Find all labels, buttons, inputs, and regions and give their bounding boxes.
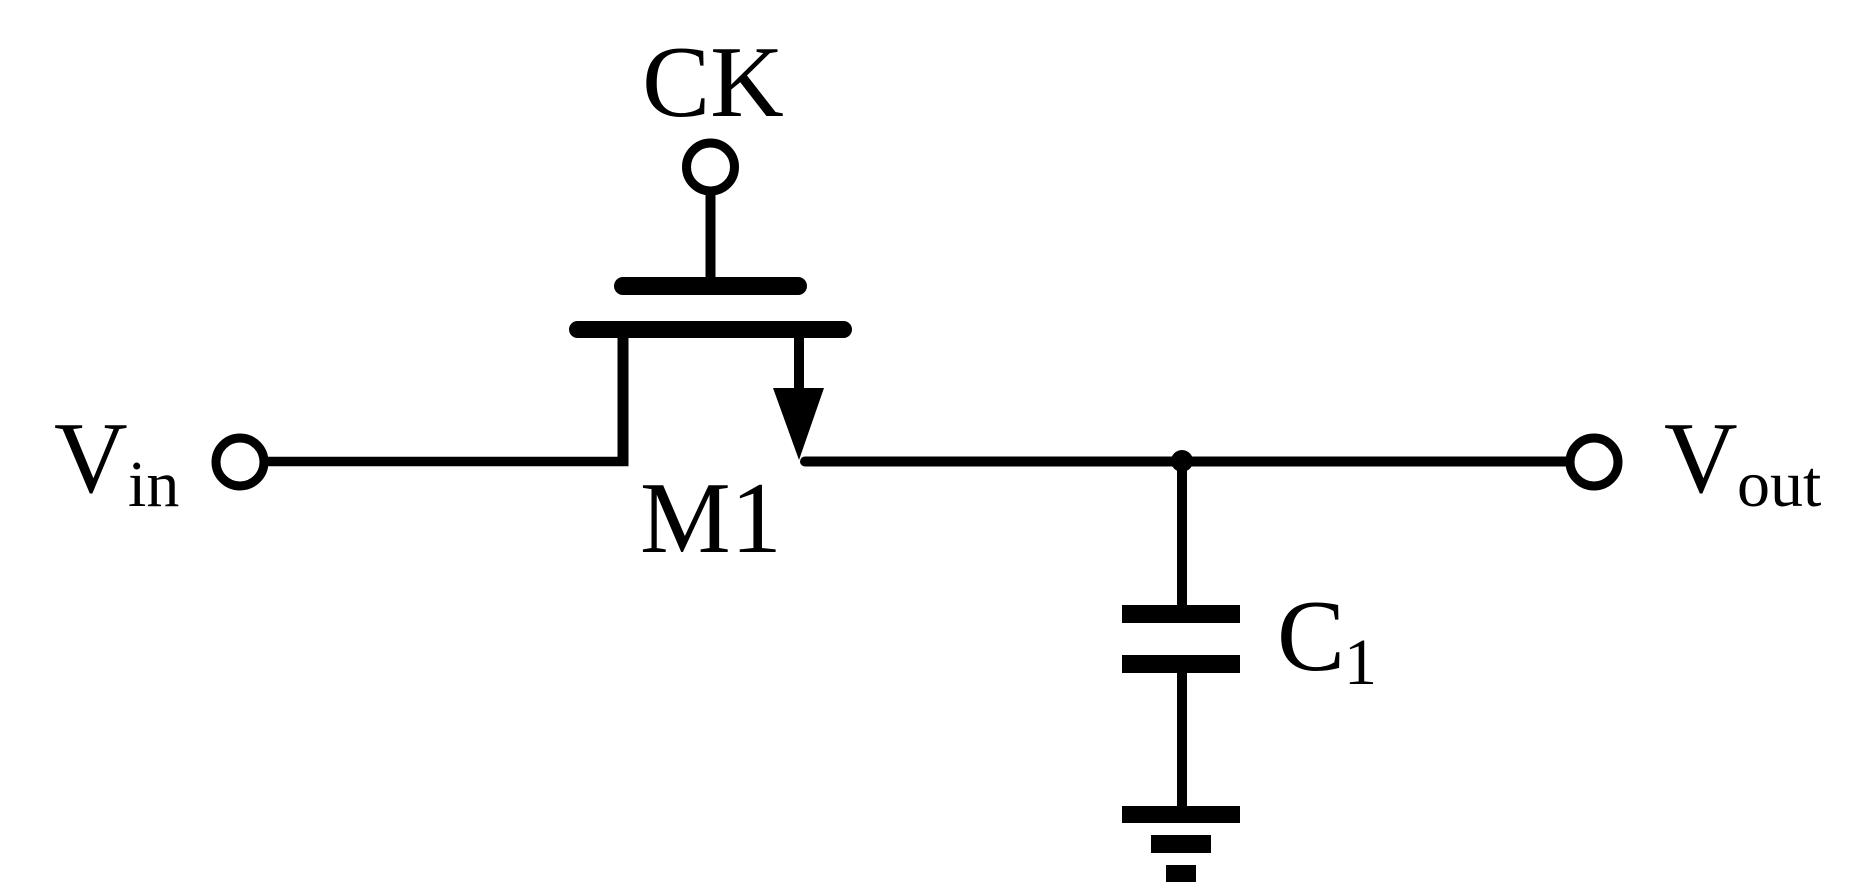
- wire Vin to M1 source: [266, 457, 629, 467]
- ground: [1122, 806, 1240, 882]
- transistor M1 drain leg: [794, 332, 804, 392]
- svg-text:V: V: [1664, 402, 1738, 515]
- transistor M1 drain arrow: [773, 388, 824, 460]
- wire gate stem: [706, 193, 716, 287]
- svg-text:M1: M1: [640, 462, 782, 575]
- transistor M1 gate bar: [623, 277, 798, 295]
- wire junction to C1: [1177, 461, 1187, 608]
- svg-text:1: 1: [1344, 626, 1377, 699]
- wire M1 drain to Vout: [805, 457, 1567, 467]
- node junction dot: [1171, 450, 1193, 472]
- transistor M1 source leg: [618, 332, 629, 462]
- svg-text:in: in: [128, 448, 179, 521]
- capacitor C1 bottom plate: [1122, 655, 1240, 673]
- capacitor C1 top plate: [1122, 605, 1240, 623]
- terminal Vout: [1570, 438, 1618, 486]
- svg-text:out: out: [1737, 448, 1821, 521]
- transistor M1 channel bar: [578, 321, 844, 338]
- svg-text:V: V: [54, 402, 128, 515]
- svg-text:CK: CK: [642, 26, 784, 139]
- svg-text:C: C: [1277, 580, 1345, 693]
- terminal Vin: [216, 438, 264, 486]
- wire C1 to ground: [1177, 670, 1187, 810]
- terminal CK: [687, 143, 735, 191]
